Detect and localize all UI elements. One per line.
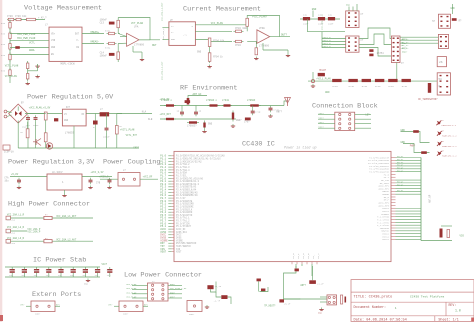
capacitor C805 — [58, 267, 63, 277]
svg-text:R?04 10k: R?04 10k — [213, 40, 225, 43]
wire U801 path — [211, 282, 217, 293]
wire below U201 — [209, 42, 211, 64]
resistor R109 — [27, 71, 29, 81]
svg-text:PART+HI.C.2: PART+HI.C.2 — [442, 155, 457, 158]
svg-text:C1u: C1u — [328, 14, 333, 17]
svg-text:-1,?F: -1,?F — [214, 300, 221, 303]
wire bias top — [117, 18, 119, 21]
svg-text:C?03: C?03 — [7, 15, 13, 18]
svg-text:C1u: C1u — [318, 14, 323, 17]
svg-text:Connection Block: Connection Block — [312, 103, 378, 111]
resistor R504 vertical — [115, 126, 118, 135]
resistor R202 vertical — [208, 53, 211, 62]
svg-text:+VCC_3,3V: +VCC_3,3V — [91, 171, 104, 174]
svg-text:VCC_20A_L2_AVT: VCC_20A_L2_AVT — [56, 238, 77, 241]
capacitor C13 — [109, 22, 115, 25]
capacitor C802 — [22, 267, 27, 277]
svg-text:CON?: CON? — [123, 313, 129, 316]
regulator IC2 LF-33CV — [47, 174, 82, 190]
svg-text:TRC_S?: TRC_S? — [401, 47, 410, 50]
wire IC2 gnd — [64, 190, 66, 194]
wire ANT_HI — [188, 96, 207, 99]
op-amp U202 — [257, 30, 270, 43]
svg-text:1N4?: 1N4? — [22, 126, 28, 129]
wire connector EXT2 right — [143, 305, 148, 307]
wire caps top — [28, 113, 46, 115]
wire feedback loop — [118, 18, 150, 40]
wire VMEAS+ from U101 — [82, 33, 104, 35]
svg-text:+VCC_RF: +VCC_RF — [143, 176, 153, 179]
resistor R205 vertical feedback — [246, 18, 249, 26]
wire below plus input — [255, 42, 257, 56]
wire connector EXT1 right — [55, 305, 60, 307]
wire below U101 — [27, 61, 29, 80]
rectifier bridge B1 — [9, 104, 28, 123]
svg-text:OUT: OUT — [152, 44, 157, 47]
svg-text:PM_U?: PM_U? — [397, 169, 404, 172]
svg-text:LF-33CV: LF-33CV — [52, 171, 63, 174]
svg-text:+1,2F: +1,2F — [215, 285, 222, 288]
wire 3v3 output rail — [82, 176, 112, 178]
resistor R111 — [107, 42, 117, 44]
ground IC2 — [62, 194, 66, 197]
wire bus to header G — [359, 48, 391, 57]
svg-text:VCC_PLAN: VCC_PLAN — [126, 291, 137, 294]
svg-text:+1,2F: +1,2F — [317, 283, 324, 286]
wire CON406 left 2 — [318, 123, 335, 125]
svg-text:VCC_PLAN: VCC_PLAN — [126, 296, 137, 299]
svg-text:100nF: 100nF — [100, 55, 108, 58]
capacitor C601 — [17, 178, 21, 184]
wire CON401 top pins — [348, 7, 350, 11]
wire CON406 left 3 — [318, 127, 335, 129]
svg-text:EP?: EP? — [56, 303, 61, 306]
wire VCC_PLAN row — [195, 24, 248, 26]
svg-text:C?1p: C?1p — [255, 111, 261, 114]
wire U202 vss — [262, 43, 264, 50]
svg-text:EP?: EP? — [144, 303, 149, 306]
screw terminal X2 — [6, 216, 11, 220]
svg-text:Sheet: 1/1: Sheet: 1/1 — [438, 317, 458, 322]
svg-text:GND: GND — [318, 312, 323, 315]
svg-text:+VCC_RF: +VCC_RF — [160, 98, 171, 101]
svg-text:PART+HI.C.2: PART+HI.C.2 — [442, 145, 457, 148]
wire VM to IC row1 — [10, 33, 49, 35]
svg-text:VCC1.3: VCC1.3 — [323, 45, 332, 48]
svg-text:MSPL-C0CW: MSPL-C0CW — [61, 63, 75, 66]
svg-text:+3,2F: +3,2F — [284, 302, 291, 305]
svg-text:L?0603: L?0603 — [247, 99, 256, 102]
labels LPC1 left nets — [126, 283, 137, 299]
svg-text:+ A?,?: + A?,? — [38, 17, 47, 20]
testpoint TP401 — [311, 80, 314, 83]
ground EXT3 — [205, 305, 209, 308]
svg-text:VCT_PLAN: VCT_PLAN — [131, 22, 144, 25]
wire output down — [116, 114, 118, 126]
microcontroller U1 CC430 — [174, 151, 391, 261]
connector CON403 — [391, 36, 400, 63]
wire VM to IC row3 — [10, 47, 49, 49]
wire output to right — [117, 113, 152, 115]
svg-text:R?4W: R?4W — [332, 85, 338, 88]
svg-text:PART+HI.C.2: PART+HI.C.2 — [442, 135, 457, 138]
wire xtal to gnd — [258, 281, 260, 291]
svg-text:VCC_20A_P: VCC_20A_P — [27, 230, 40, 233]
resistor R108 — [27, 61, 29, 71]
wire R205 to inv input — [246, 26, 248, 31]
svg-text:KLA: KLA — [142, 110, 147, 113]
svg-text:10u: 10u — [4, 180, 9, 183]
resistor R113 vertical — [117, 52, 120, 59]
svg-text:VCC_20A_L: VCC_20A_L — [162, 27, 165, 40]
svg-text:XOUT: XOUT — [176, 251, 182, 254]
wire rf lower — [284, 296, 330, 299]
wire U1 bottom nets — [296, 264, 312, 276]
wire U201 left pin2 — [162, 39, 169, 41]
capacitor C14 — [109, 53, 115, 56]
wire VCC_20A row 1 — [11, 217, 94, 219]
screw terminal X4 — [6, 239, 11, 243]
resistor R204 — [234, 40, 244, 42]
wire CON406 left 1 — [318, 118, 335, 120]
svg-text:VCC?: VCC? — [319, 126, 325, 129]
resistor R112 vertical — [117, 20, 120, 27]
svg-text:BAT54: BAT54 — [377, 52, 385, 55]
capacitor C305 — [251, 109, 255, 115]
svg-text:+VCC3,3: +VCC3,3 — [99, 176, 109, 179]
capacitor C902 — [295, 269, 299, 272]
svg-text:C?2p: C?2p — [274, 109, 280, 112]
ground R206 — [254, 57, 258, 60]
svg-text:V-: V- — [171, 31, 174, 34]
crystal Q401 box — [437, 57, 446, 67]
ground U202 — [286, 54, 290, 57]
svg-text:VCTL_PLAN: VCTL_PLAN — [5, 65, 19, 68]
svg-text:VD+: VD+ — [51, 33, 56, 36]
svg-text:VCC_PLAN: VCC_PLAN — [126, 283, 137, 286]
capacitor C807 — [83, 267, 88, 277]
svg-text:VCO: VCO — [460, 235, 465, 238]
svg-text:VCC?: VCC? — [102, 263, 108, 266]
svg-text:CA?-1A: CA?-1A — [7, 232, 16, 235]
fuse F1 — [44, 216, 52, 219]
wire X1 to bridge — [7, 112, 12, 113]
wire CON406 right 1 — [355, 118, 371, 120]
svg-text:R?04 100k: R?04 100k — [235, 27, 248, 30]
svg-text:ANT?: ANT? — [300, 284, 306, 287]
wire op-amp input+ — [118, 34, 126, 37]
connector EXT1 — [31, 301, 55, 312]
resistor R104 — [9, 31, 11, 41]
svg-text:1u0F: 1u0F — [318, 23, 324, 26]
wire CON402 pin 2 — [322, 41, 346, 43]
component cluster TP — [261, 289, 265, 292]
svg-text:RF_B: RF_B — [307, 253, 310, 259]
svg-text:CC430 IC: CC430 IC — [242, 140, 275, 148]
svg-text:RF_X: RF_X — [317, 253, 320, 259]
wire RF bottom rail — [160, 118, 236, 120]
LED D501 — [436, 121, 441, 126]
svg-text:CA?-1A: CA?-1A — [7, 242, 16, 245]
wire RF top rail — [160, 105, 284, 107]
svg-text:VCTL_5V?: VCTL_5V? — [126, 134, 138, 137]
svg-text:ANT_UP: ANT_UP — [429, 194, 432, 203]
svg-text:Current Measurement: Current Measurement — [183, 6, 261, 14]
svg-text:1.0: 1.0 — [455, 309, 461, 313]
svg-text:C?0?: C?0? — [244, 121, 250, 124]
ground below U101 a — [35, 64, 39, 67]
wire bus to vco cluster — [421, 240, 452, 242]
sheet frame corner mark right — [471, 318, 474, 322]
inductor L306 — [164, 118, 176, 120]
switch S401 box — [438, 14, 450, 28]
wire CON402 pin 3 — [322, 44, 346, 46]
wire VCC_20A row 2 — [11, 230, 28, 232]
inductor L302 — [208, 104, 220, 106]
diode D101 — [15, 46, 19, 49]
capacitor C405 vertical — [428, 83, 431, 93]
svg-text:VCC?: VCC? — [319, 117, 325, 120]
svg-text:1u0F: 1u0F — [328, 23, 334, 26]
wire VM to IC row4 — [10, 54, 49, 56]
ground op-amp U102 — [140, 58, 144, 61]
balun T1 — [309, 280, 316, 284]
svg-text:LB?: LB? — [365, 114, 370, 117]
wire CON406 right 3 — [355, 127, 371, 129]
wire CON406 left 0 — [318, 114, 335, 116]
svg-text:Power Coupling: Power Coupling — [103, 159, 161, 167]
LED LED501 — [46, 143, 52, 149]
svg-text:VCC_PLAN_1,8V: VCC_PLAN_1,8V — [170, 287, 187, 290]
wire gnd caps riser — [312, 11, 314, 18]
diode D502 — [54, 118, 58, 121]
fuse F101 — [25, 18, 38, 20]
svg-text:CA?-1A: CA?-1A — [7, 219, 16, 222]
svg-text:EP?: EP? — [109, 303, 114, 306]
svg-text:LT?V806: LT?V806 — [259, 45, 270, 48]
svg-text:GND: GND — [171, 38, 176, 41]
inductor L305 vertical to VCC — [187, 98, 190, 105]
svg-text:R?0: R?0 — [1, 69, 6, 72]
capacitor C402 — [318, 17, 325, 20]
sheet frame left edge — [0, 0, 2, 322]
wire CON406 right 2 — [355, 123, 371, 125]
svg-text:AVSS2: AVSS2 — [382, 238, 389, 241]
wire coupling right — [140, 178, 158, 180]
capacitor C303 — [194, 110, 198, 116]
connector X1 AC input — [4, 110, 7, 118]
svg-text:Power Regulation 5,0V: Power Regulation 5,0V — [27, 94, 114, 102]
wire row2 to R203 — [195, 30, 232, 32]
svg-text:ICSP-1A: ICSP-1A — [4, 150, 14, 153]
svg-text:GND?: GND? — [170, 283, 176, 286]
connector CON401 — [346, 11, 359, 28]
svg-text:C?03 10k: C?03 10k — [15, 15, 27, 18]
svg-text:VCC_20A_L1_RCT: VCC_20A_L1_RCT — [56, 215, 77, 218]
capacitor C401 — [303, 17, 310, 20]
svg-text:R?4W: R?4W — [388, 85, 394, 88]
svg-text:RF_G: RF_G — [302, 253, 305, 259]
svg-text:C?B: C?B — [96, 182, 101, 185]
connector LPC1 — [148, 283, 169, 301]
resistor R414 — [388, 79, 397, 82]
svg-text:PM_U?: PM_U? — [397, 183, 404, 186]
wire resistor chain rail — [308, 80, 437, 82]
resistor R206 vertical — [255, 48, 258, 55]
wire riser c302 — [181, 106, 183, 110]
pin stubs U1 bottom — [292, 262, 317, 265]
resistor R503 vertical — [44, 112, 47, 120]
wire VCC_20A row 3 — [11, 240, 94, 242]
svg-text:R?0: R?0 — [1, 43, 6, 46]
connector RF CON9 — [327, 295, 337, 305]
wire balun up — [312, 266, 314, 280]
connector EXT2 — [119, 301, 143, 312]
svg-text:R?4W: R?4W — [362, 85, 368, 88]
capacitor C301 blob — [185, 100, 191, 103]
svg-text:GND: GND — [325, 91, 330, 94]
wire tp link — [259, 287, 268, 292]
resistor R501 — [413, 130, 419, 133]
svg-text:TITLE: CC430_proto: TITLE: CC430_proto — [354, 295, 393, 300]
component U801 lower — [221, 295, 227, 299]
wire coupling left — [100, 178, 118, 180]
svg-text:L?3n9: L?3n9 — [222, 99, 230, 102]
capacitor C501 — [26, 115, 30, 121]
svg-text:U?DA: U?DA — [259, 27, 265, 30]
svg-text:VIN: VIN — [51, 39, 56, 42]
svg-text:MCU_PWR_PLAN: MCU_PWR_PLAN — [17, 37, 36, 40]
wire bridge to gnd rail — [17, 121, 19, 149]
labels CON403 right nets — [402, 38, 408, 54]
wire D503 — [94, 114, 96, 121]
svg-text:+5,0V: +5,0V — [11, 173, 19, 176]
ground C602 — [88, 186, 92, 189]
wire output OUT — [139, 39, 160, 41]
antenna ANT1 — [285, 98, 291, 107]
ground R303 — [231, 124, 235, 127]
op-amp U102 — [127, 33, 139, 46]
ground R302 — [202, 130, 206, 133]
svg-text:VMEAS-: VMEAS- — [90, 41, 100, 44]
inductor L304 — [248, 104, 261, 106]
connector CON402 — [346, 36, 359, 52]
inductor L301 — [164, 104, 176, 106]
capacitor C603 — [108, 178, 112, 184]
resistor R110 — [107, 32, 117, 34]
svg-text:Date: 04.06.2014 07:56:54: Date: 04.06.2014 07:56:54 — [354, 318, 407, 322]
diode D503 — [93, 121, 98, 125]
capacitor C502 — [34, 115, 38, 121]
connector ICSP — [3, 145, 10, 150]
LED D502 — [437, 131, 442, 136]
svg-text:V-: V- — [76, 39, 79, 42]
ground below U101 b — [35, 75, 39, 78]
wire U202 output — [270, 36, 290, 38]
wire gnd stub a — [28, 70, 38, 72]
svg-text:C13: C13 — [100, 22, 105, 25]
svg-text:GND: GND — [84, 283, 89, 286]
capacitor C302 — [180, 110, 184, 116]
wire mclr stub — [312, 72, 314, 81]
svg-text:VMEAS+: VMEAS+ — [90, 31, 100, 34]
svg-text:IC?: IC? — [66, 106, 71, 109]
wire S401 gnd — [452, 4, 454, 14]
wire top rail VM — [8, 19, 45, 21]
wire U102 gnd — [132, 46, 134, 52]
svg-text:KLB: KLB — [148, 118, 153, 121]
current sense IC U201 — [169, 22, 196, 46]
svg-text:Low Power Connector: Low Power Connector — [124, 271, 202, 279]
pin rows left of U1 — [160, 155, 225, 254]
svg-text:GND: GND — [312, 8, 317, 11]
wire bridge top rail — [17, 107, 19, 111]
svg-text:XOUT: XOUT — [160, 251, 166, 254]
svg-text:1u0F: 1u0F — [303, 23, 309, 26]
svg-text:ADC?: ADC? — [170, 296, 176, 299]
wire CON403 down — [396, 63, 398, 82]
svg-text:L?805S: L?805S — [65, 132, 75, 135]
wire con9 left — [320, 296, 327, 298]
inductor L501 — [100, 112, 110, 116]
wire U801 right down — [228, 297, 232, 304]
wire op-amp input- — [118, 42, 126, 44]
label U1 bottom rotated pins — [292, 253, 320, 259]
svg-text:R?4W: R?4W — [402, 85, 408, 88]
transistor Q501 — [33, 139, 41, 146]
wire caps bottom — [27, 122, 29, 148]
resistor R412 — [362, 79, 371, 82]
resistor R106 — [9, 52, 11, 62]
wire 3v3 input rail — [10, 176, 47, 178]
wire stab bottom bus — [5, 276, 100, 278]
ground stab — [86, 279, 90, 282]
svg-text:GND?: GND? — [170, 291, 176, 294]
wire LED feed — [401, 132, 430, 143]
svg-text:R?04: R?04 — [105, 30, 111, 33]
svg-text:+VCC_PLAN?: +VCC_PLAN? — [252, 16, 268, 19]
svg-text:+VCC_RF?: +VCC_RF? — [160, 113, 172, 116]
connector CON404 — [438, 34, 448, 48]
svg-text:100n: 100n — [33, 124, 39, 127]
svg-text:GND: GND — [51, 46, 56, 49]
wire row3 to R204 — [195, 40, 232, 42]
svg-text:C1u: C1u — [303, 14, 308, 17]
wire U801 lower path — [216, 292, 221, 297]
wire bias bottom — [117, 44, 119, 52]
resistor R102 — [15, 18, 22, 20]
ferrite FB1 — [118, 173, 140, 187]
svg-text:R?0: R?0 — [1, 22, 6, 25]
resistor R415 — [402, 79, 411, 82]
svg-text:GND?: GND? — [402, 51, 408, 54]
screw terminal X3 — [6, 229, 11, 233]
svg-text:VCT_PLAN: VCT_PLAN — [5, 75, 18, 78]
resistor R203 — [234, 30, 244, 32]
resistor R101 — [7, 18, 15, 20]
diode D401 — [369, 49, 373, 52]
ground below U101 c — [26, 82, 30, 85]
resistor R701 vertical — [447, 230, 450, 238]
svg-text:L?0603 n: L?0603 n — [206, 99, 218, 102]
crystal Y2 — [341, 295, 347, 304]
title block frame — [351, 280, 474, 322]
svg-text:-?+: -?+ — [183, 34, 188, 37]
svg-text:OUT?: OUT? — [281, 33, 288, 36]
op-amp IC U101 MSP monitor — [49, 27, 82, 61]
wire rail to regulator — [25, 113, 62, 115]
pin rows right of U1 — [368, 156, 396, 241]
